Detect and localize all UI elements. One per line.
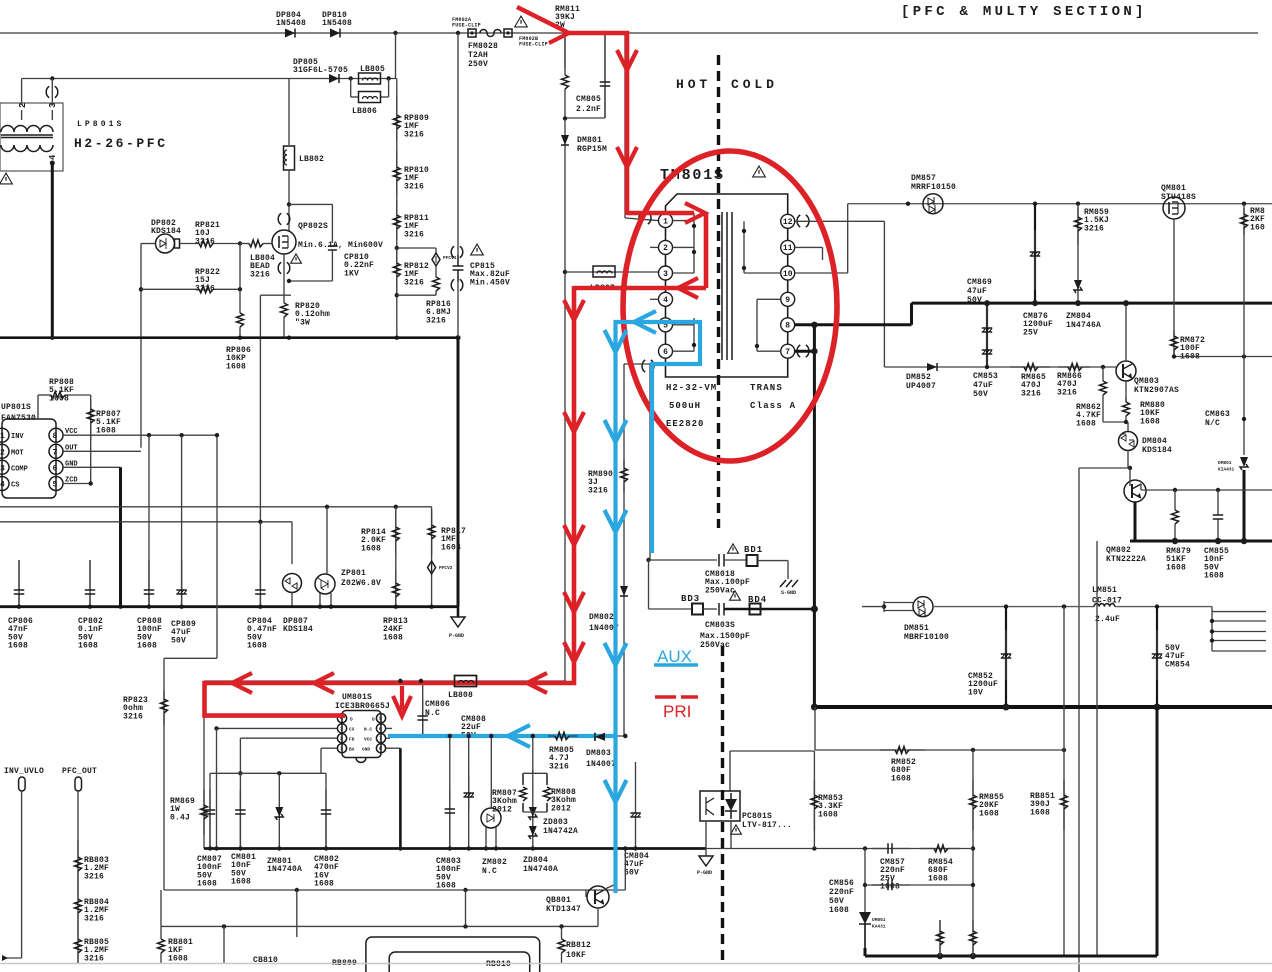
PRI legend line (655, 695, 698, 698)
wire RP807 column (90, 395, 92, 484)
phase mark pin1 (639, 212, 651, 224)
wire pin8 out (795, 323, 912, 326)
wire output drop (1156, 707, 1159, 956)
diode DP807 (283, 574, 302, 593)
label QM803 (1134, 377, 1179, 395)
svg-text:LB805: LB805 (360, 65, 385, 74)
wire QM803 emitter up (1125, 303, 1127, 361)
warning symbol LP801S (0, 173, 12, 184)
svg-text:FD: FD (349, 737, 355, 743)
junction UM bus (208, 846, 212, 850)
junction CM806 bottom (421, 734, 425, 738)
svg-text:UP4007: UP4007 (906, 382, 936, 391)
label RP812 (404, 262, 429, 287)
wire ZM851 column (864, 849, 866, 949)
svg-text:12: 12 (783, 218, 793, 227)
svg-text:3216: 3216 (123, 712, 143, 721)
svg-text:QP802S: QP802S (298, 222, 328, 231)
junction ZP801 bus a (318, 605, 322, 609)
junction RP817 bus (429, 605, 433, 609)
wire PC pin to rail (730, 821, 732, 849)
junction box bottom b (463, 888, 467, 892)
svg-text:AUX: AUX (657, 647, 692, 666)
resistor RM859 (1075, 208, 1082, 245)
wire CP808 column (148, 435, 150, 607)
resistor RM854 (920, 845, 960, 852)
wire RP806 top lead (239, 289, 241, 306)
junction ZCD RP807 (89, 481, 93, 485)
junction QM802 base node (1128, 466, 1132, 470)
wire pin12 out (795, 220, 885, 222)
test point PFC_OUT (75, 777, 82, 791)
junction DM802 line (623, 734, 627, 738)
label RM862 (1076, 403, 1101, 428)
junction RM879 bus (1172, 538, 1178, 544)
resistor RM855 (970, 780, 977, 830)
svg-text:QM801: QM801 (1161, 184, 1186, 193)
label CP808 (137, 617, 162, 651)
label RB805 (84, 938, 109, 963)
svg-text:ZM804: ZM804 (1066, 312, 1091, 321)
wire RP809 chain (396, 79, 398, 338)
wire cap column (468, 736, 470, 849)
wire RP814/RP813 column (395, 507, 397, 607)
svg-text:2: 2 (0, 448, 5, 457)
wire top rail to DP805 rail (395, 33, 397, 79)
junction CM876 top (1033, 202, 1037, 206)
label RM869 (170, 797, 195, 822)
svg-text:3216: 3216 (84, 954, 104, 963)
svg-text:1N4740A: 1N4740A (523, 865, 558, 874)
junction RP812 bottom (395, 293, 399, 297)
svg-text:INV: INV (11, 433, 24, 441)
label RB851 (1030, 792, 1055, 817)
PRI path left drop (202, 681, 207, 718)
junction DM857 left (906, 202, 910, 206)
warning symbol CP815 (471, 244, 484, 255)
wire box to rail (465, 890, 467, 926)
svg-text:Min.450V: Min.450V (470, 278, 510, 287)
junction RM811/CM805 (563, 116, 567, 120)
resistor RP821 (180, 240, 241, 247)
svg-text:DM803: DM803 (586, 749, 611, 758)
warning symbol PC801S (731, 825, 742, 834)
wire RB851 riser (1063, 607, 1065, 750)
svg-text:CM853: CM853 (973, 372, 998, 381)
junction CP815 bus (455, 335, 460, 340)
wire main output bus (814, 705, 1272, 709)
AUX legend line (654, 663, 698, 666)
wire GND (63, 466, 121, 468)
junction right column mid (1242, 354, 1246, 358)
wire LB802 to QP802S (288, 170, 290, 231)
junction VCC2 a top (448, 734, 452, 738)
wire aux return column (623, 364, 625, 736)
svg-text:DM851: DM851 (904, 624, 929, 633)
wire RP816 branch top (397, 247, 436, 249)
svg-text:Class A: Class A (750, 401, 796, 411)
label RM852 (891, 758, 916, 783)
zener ZD803 (529, 807, 537, 820)
PRI path to pin1 (627, 211, 694, 216)
junction DM851 left (882, 604, 886, 608)
zener DM801 KIA431 (1240, 457, 1248, 470)
wire r1 column (939, 920, 941, 956)
resistor right edge (1241, 208, 1248, 235)
label LM851 (1092, 586, 1122, 606)
svg-text:S-GND: S-GND (781, 590, 796, 596)
junction RP822 right (238, 287, 242, 291)
wire CP810 bottom (289, 280, 332, 282)
label DP810 (322, 11, 352, 28)
warning symbol near fuse (515, 16, 528, 27)
capacitor CP815 (453, 255, 464, 282)
resistor RM872 (1171, 330, 1178, 357)
junction VCC2 d top (531, 734, 535, 738)
transformer TM801S pin circles (659, 214, 795, 359)
svg-text:2012: 2012 (551, 804, 571, 813)
label DP807 (283, 617, 313, 634)
svg-text:CM854: CM854 (1165, 660, 1190, 669)
node HOT/COLD divider lower (721, 646, 724, 962)
junction LB805 right (386, 76, 390, 80)
wire LB807 to pin3 (565, 271, 659, 273)
wire VCC jog (164, 657, 217, 659)
junction winding c (692, 343, 696, 347)
svg-text:D: D (350, 717, 353, 723)
page edge (0, 963, 1272, 965)
svg-text:7: 7 (785, 348, 790, 357)
resistor LB804 bead (240, 240, 273, 247)
wire QM803 collector (1125, 381, 1127, 402)
svg-text:50V: 50V (967, 296, 982, 305)
junction top rail / fuse (456, 31, 460, 35)
svg-text:Max.1500pF: Max.1500pF (700, 632, 750, 641)
resistor RM805 (548, 733, 578, 740)
label ZM804 (1066, 312, 1101, 330)
label CM802 (314, 855, 339, 889)
resistor RB851 (1061, 780, 1068, 830)
wire secondary top rail (848, 203, 1272, 205)
svg-text:1608: 1608 (891, 774, 911, 783)
resistor RP807 (87, 400, 94, 440)
wire UM box bottom (164, 889, 625, 891)
svg-text:7: 7 (379, 736, 382, 742)
wire pin3 into winding (51, 110, 53, 120)
resistor bottom r1 (937, 920, 944, 956)
wire RP821 to RP822 (239, 244, 241, 290)
svg-text:1608: 1608 (436, 882, 456, 891)
wire GND drop (119, 467, 122, 606)
PRI path from pin3 (574, 286, 706, 291)
transistor QP802S (272, 230, 296, 254)
label RM811 (555, 5, 580, 30)
svg-text:ZD803: ZD803 (543, 818, 568, 827)
svg-text:KTD1347: KTD1347 (546, 905, 581, 914)
wire CM801 cap column (239, 773, 241, 848)
junction RM872 bottom (1172, 354, 1176, 358)
wire collector rail (1141, 489, 1272, 491)
junction UM bus (324, 846, 328, 850)
svg-text:Z02W6.8V: Z02W6.8V (341, 579, 381, 588)
svg-text:2.2nF: 2.2nF (576, 105, 601, 114)
wire PC box top (730, 750, 814, 752)
wire pin6 stub (386, 727, 392, 729)
junction UM top a layer2 (398, 679, 402, 683)
svg-text:EE2820: EE2820 (666, 419, 704, 429)
PRI arrow left (232, 673, 252, 693)
label RM872 (1180, 336, 1205, 361)
label RB803 (84, 856, 109, 881)
component CB810 box (366, 937, 540, 972)
svg-text:2: 2 (18, 103, 28, 108)
label CM801 (231, 853, 256, 887)
wire TM801S winding right (744, 221, 781, 351)
wire QB801 collector (605, 884, 616, 889)
diode DP810 (330, 29, 340, 38)
wire base rail (1079, 467, 1130, 469)
svg-text:1608: 1608 (1204, 572, 1224, 581)
label CM876 (1023, 312, 1053, 337)
svg-text:3: 3 (663, 270, 668, 279)
junction winding e (742, 266, 746, 270)
junction bottom rail c (559, 924, 563, 928)
svg-text:1608: 1608 (49, 394, 69, 403)
PRI arrow down (564, 412, 584, 432)
junction RP822 left (139, 287, 143, 291)
label RM859 (1084, 208, 1109, 233)
PRI arrow left (314, 673, 334, 693)
wire SGND lead (787, 561, 789, 579)
resistor RM862 (1100, 378, 1107, 400)
junction DM804 top (1124, 420, 1128, 424)
svg-text:LTV-817...: LTV-817... (742, 821, 792, 830)
diode DM803 (595, 733, 605, 741)
junction pin3 rail (50, 76, 54, 80)
svg-text:5: 5 (53, 481, 58, 490)
wire DM852 rail (884, 366, 1116, 368)
svg-text:3216: 3216 (195, 284, 215, 293)
svg-text:50V: 50V (171, 636, 186, 645)
label QB801 (546, 896, 581, 914)
ferrite bead BD3 (692, 604, 703, 615)
junction UM bus (531, 846, 535, 850)
wire ZM802 top lead (490, 736, 492, 808)
svg-text:3216: 3216 (404, 230, 424, 239)
wire aux return top (624, 363, 652, 365)
label UP801S (1, 403, 36, 423)
wire CM802 column (325, 773, 327, 848)
svg-text:RB812: RB812 (566, 941, 591, 950)
label FM802B (519, 36, 548, 48)
svg-text:P-GND: P-GND (697, 870, 712, 876)
inductor LM851 (1094, 604, 1115, 607)
diode DP805 (329, 74, 339, 83)
capacitor CM852 (1001, 630, 1012, 680)
junction CM805 top (603, 31, 607, 35)
label CM853 (973, 372, 998, 399)
svg-text:1N4746A: 1N4746A (1066, 321, 1101, 330)
junction CX (214, 726, 218, 730)
diode DM851 circle (913, 597, 933, 617)
wire UM ground bus (204, 847, 706, 850)
label LB804 (250, 254, 275, 279)
wire pin10 out (795, 272, 848, 274)
svg-text:PC801S: PC801S (742, 812, 772, 821)
wire RM853 column (813, 751, 815, 849)
wire CM806 column (422, 681, 424, 736)
svg-text:QM803: QM803 (1134, 377, 1159, 386)
wire aux rail (933, 606, 1094, 608)
resistor RM808 (544, 773, 551, 812)
zener ZM804 (1074, 280, 1082, 293)
label ZD804 (523, 856, 558, 874)
svg-text:1608: 1608 (383, 633, 403, 642)
PRI entry arrow (517, 7, 563, 30)
svg-text:H2-32-VM: H2-32-VM (666, 383, 717, 393)
wire CM8018 rail (649, 559, 718, 561)
AUX arrow VCC (508, 725, 530, 747)
resistor RP823 (161, 690, 168, 725)
AUX path VCC rail (388, 734, 618, 738)
svg-text:6: 6 (663, 348, 668, 357)
label DM851 (904, 624, 949, 642)
wire CP810 top (289, 203, 332, 205)
wire aux line under blue (615, 364, 617, 893)
resistor RP806 (237, 306, 244, 338)
junction RB851 top (1062, 748, 1066, 752)
wire ZP801 lead b (330, 593, 332, 607)
transistor QM802 (1124, 480, 1146, 502)
inductor LB805 (359, 73, 381, 84)
label DP802 (151, 219, 181, 236)
junction RP814 top (394, 505, 398, 509)
test point PFCV1 (432, 253, 440, 266)
svg-text:2: 2 (340, 736, 343, 742)
svg-text:GND: GND (362, 747, 370, 753)
wire source sense (260, 294, 291, 296)
svg-text:P-GND: P-GND (449, 633, 464, 639)
capacitor CM802 (321, 790, 332, 849)
svg-text:1608: 1608 (96, 426, 116, 435)
svg-text:1N4742A: 1N4742A (543, 827, 578, 836)
wire RM862 join (1103, 421, 1126, 423)
capacitor CP810 (328, 246, 337, 250)
svg-text:FM8028: FM8028 (468, 42, 498, 51)
wire pin11 drop (822, 247, 824, 260)
svg-text:PFCV1: PFCV1 (443, 255, 457, 261)
svg-text:1608: 1608 (928, 874, 948, 883)
svg-text:STU418S: STU418S (1161, 193, 1196, 202)
svg-text:KA431: KA431 (872, 924, 886, 930)
svg-text:INV_UVLO: INV_UVLO (4, 767, 44, 776)
svg-text:RB810: RB810 (486, 960, 511, 969)
wire PC pin to gnd (705, 821, 707, 849)
wire RM852 feed (814, 707, 816, 750)
inductor LB808 (455, 676, 477, 687)
svg-text:MOT: MOT (11, 449, 24, 457)
ground P-GND 2 (699, 856, 713, 866)
node INV_UVLO arrow (2, 955, 22, 961)
AUX arrow down (605, 420, 627, 442)
svg-text:1: 1 (340, 746, 343, 752)
wire ZCD (63, 483, 91, 485)
label LB805 (360, 65, 385, 74)
svg-text:UP801S: UP801S (1, 403, 31, 412)
junction RP813 bus (394, 605, 398, 609)
svg-text:3216: 3216 (549, 762, 569, 771)
wire INV_UVLO drop (21, 791, 23, 958)
junction CM8018 left (646, 558, 650, 562)
diode DM802 (620, 586, 628, 596)
resistor RM865 (1010, 364, 1050, 371)
svg-text:CS: CS (11, 482, 19, 490)
resistor RM852 (880, 747, 925, 754)
capacitor CM804 (630, 762, 641, 849)
svg-text:250V: 250V (468, 60, 488, 69)
phase mark pin7 (797, 345, 809, 357)
wire pin8 GND (386, 747, 401, 749)
wire CM805 branch (604, 33, 606, 118)
label FM8028 (468, 42, 498, 69)
AUX arrow down (605, 330, 627, 352)
svg-text:CM806: CM806 (425, 700, 450, 709)
svg-text:PFCV2: PFCV2 (439, 565, 453, 571)
wire CP815 column upper (457, 33, 459, 255)
op-amp U-UP801S FAN7530 body (2, 419, 56, 498)
wire LB806 lead left (351, 96, 359, 98)
wire ZP801 lead a (319, 593, 321, 607)
wire bottom drop b (296, 890, 298, 937)
wire ZM801 column (278, 773, 280, 848)
junction bracket a (1210, 619, 1214, 623)
svg-text:LP801S: LP801S (77, 120, 124, 129)
wire VCC (63, 434, 217, 436)
svg-text:1608: 1608 (818, 810, 838, 819)
svg-text:MRRF10150: MRRF10150 (911, 183, 956, 192)
zener ZM801 (275, 807, 283, 820)
svg-text:UM801S: UM801S (342, 693, 372, 702)
junction RB851 column top (1062, 604, 1066, 608)
svg-text:MBRF10100: MBRF10100 (904, 633, 949, 642)
wire primary feed vertical (624, 33, 626, 218)
junction FD rail a (238, 771, 242, 775)
label RM880 (1140, 401, 1165, 426)
label RM805 (549, 746, 574, 771)
wire RB801 top (160, 890, 162, 926)
wire BD3 to CM803S (703, 608, 717, 610)
junction box right bus (623, 846, 627, 850)
transformer LP801S body (0, 103, 63, 171)
transformer TM801S core (722, 212, 732, 360)
PRI path winding (704, 213, 709, 288)
PRI arrow into pin1 (685, 203, 705, 223)
svg-text:1608: 1608 (880, 883, 900, 892)
svg-text:220nF: 220nF (829, 888, 854, 897)
PRI arrow down (564, 525, 584, 545)
wire pin3 CX (217, 727, 338, 729)
PRI arrow down (617, 147, 637, 167)
junction CM852 bus (1003, 704, 1010, 711)
wire secondary bus (912, 302, 1272, 305)
wire CM856 rail (865, 884, 973, 886)
junction bracket b (1210, 629, 1214, 633)
svg-text:FAN7530: FAN7530 (1, 414, 36, 423)
svg-text:500uH: 500uH (669, 401, 701, 411)
capacitor CM854 (1152, 630, 1163, 680)
wire CM803 column (449, 736, 451, 849)
inductor LB802 (284, 146, 295, 170)
